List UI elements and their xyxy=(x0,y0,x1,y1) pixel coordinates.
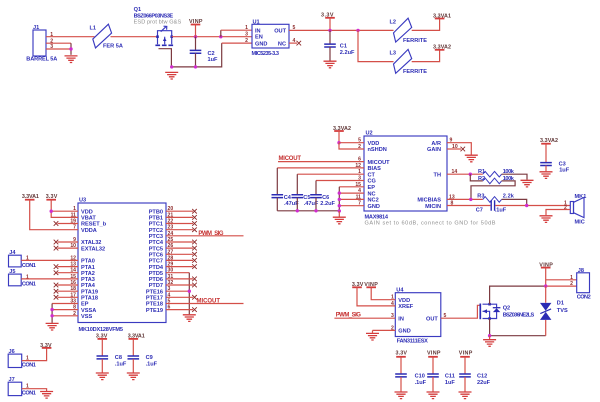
svg-text:J1: J1 xyxy=(33,25,39,31)
svg-text:PTC5: PTC5 xyxy=(149,246,163,252)
svg-text:PTE18: PTE18 xyxy=(146,302,163,308)
svg-text:2.2uF: 2.2uF xyxy=(340,50,355,56)
ground (Q2) xyxy=(489,336,491,340)
no-connect X (PTA2) xyxy=(54,270,59,275)
resistor R2 100k xyxy=(470,174,514,184)
no-connect X (PTC1) xyxy=(192,221,197,226)
capacitor C1 2.2uF xyxy=(324,30,355,60)
node C6 rail junction xyxy=(314,209,317,212)
svg-text:C8: C8 xyxy=(115,355,122,361)
svg-text:BARREL 5A: BARREL 5A xyxy=(26,56,57,62)
no-connect X (PTA19) xyxy=(54,289,59,294)
svg-text:U3: U3 xyxy=(79,198,86,204)
node C2 bottom junction xyxy=(194,65,197,68)
svg-text:EXTAL32: EXTAL32 xyxy=(81,246,105,252)
wire PTE18 MICOUT xyxy=(166,303,244,305)
svg-text:VDD: VDD xyxy=(398,298,410,304)
svg-text:nSHDN: nSHDN xyxy=(368,147,387,153)
power 3.3V (U4) xyxy=(352,282,364,288)
wire PTA1 stub xyxy=(58,266,79,268)
svg-text:1uF: 1uF xyxy=(445,380,456,386)
wire J5 to PTA3 xyxy=(21,278,78,280)
svg-text:XTAL32: XTAL32 xyxy=(81,240,101,246)
svg-text:C12: C12 xyxy=(477,374,487,380)
no-connect X (PTD6) xyxy=(192,277,197,282)
svg-text:PTC4: PTC4 xyxy=(149,240,164,246)
svg-text:GND: GND xyxy=(368,204,380,210)
svg-text:EP: EP xyxy=(368,185,376,191)
node mic junction xyxy=(525,204,528,207)
svg-text:.1uF: .1uF xyxy=(495,207,507,213)
no-connect X (GAIN) xyxy=(461,147,466,152)
wire RESET_b stub xyxy=(58,223,79,225)
node VINP/J8 junction xyxy=(544,284,547,287)
ground (Q1 rail) xyxy=(165,72,178,79)
svg-text:GAIN: GAIN xyxy=(427,147,441,153)
svg-text:BSZ036NE2LS: BSZ036NE2LS xyxy=(503,313,535,319)
svg-text:MICIN: MICIN xyxy=(425,204,441,210)
ground (R1) xyxy=(521,180,534,187)
svg-text:NC: NC xyxy=(278,41,286,47)
svg-text:PTC2: PTC2 xyxy=(149,228,163,234)
svg-text:C2: C2 xyxy=(208,51,215,57)
no-connect X (U1 NC) xyxy=(297,41,302,46)
svg-text:PTA0: PTA0 xyxy=(81,259,95,265)
connector J5 CON1 xyxy=(9,269,36,288)
resistor R1 100k xyxy=(478,169,515,177)
ground (C10) xyxy=(395,392,408,399)
node MICBIAS junction xyxy=(469,198,472,201)
svg-text:.1uF: .1uF xyxy=(115,362,127,368)
svg-text:J4: J4 xyxy=(9,250,16,256)
no-connect X (PTD4) xyxy=(192,264,197,269)
svg-text:ESD prot btw G&S: ESD prot btw G&S xyxy=(134,20,182,26)
svg-text:CON1: CON1 xyxy=(22,363,36,369)
wire R1 to ground xyxy=(502,174,527,180)
no-connect X (PTC6) xyxy=(192,252,197,257)
connector J8 CON2 xyxy=(570,268,591,301)
op-amp U1 MIC5235-3.3 xyxy=(245,19,295,57)
svg-text:1: 1 xyxy=(26,275,29,281)
wire EP/VSSA/VSS to ground xyxy=(52,304,78,316)
ground (MK1) xyxy=(540,216,553,223)
svg-text:C7: C7 xyxy=(476,207,483,213)
svg-text:GAIN set to 60dB, connect to G: GAIN set to 60dB, connect to GND for 50d… xyxy=(365,221,496,227)
resistor R3 2.2k xyxy=(477,194,514,203)
no-connect X (PTB0) xyxy=(192,209,197,214)
connector J7 CON1 xyxy=(8,377,36,397)
pin numbers U3 left xyxy=(70,206,76,317)
no-connect X (RESET_b) xyxy=(54,221,59,226)
svg-text:PTE16: PTE16 xyxy=(146,289,163,295)
svg-text:MK10DX128VFM5: MK10DX128VFM5 xyxy=(79,327,124,333)
wire MK1 pin2 to ground xyxy=(546,210,570,216)
svg-text:IN: IN xyxy=(398,316,404,322)
wire XTAL32 stub xyxy=(58,241,79,243)
svg-text:C5: C5 xyxy=(303,195,310,201)
svg-text:FAN3111ESX: FAN3111ESX xyxy=(397,339,428,345)
power 3.3V (at C1) xyxy=(321,13,335,31)
svg-text:CON1: CON1 xyxy=(22,282,36,288)
svg-text:U4: U4 xyxy=(396,288,404,294)
svg-text:C6: C6 xyxy=(322,195,329,201)
wire PTC7 stub xyxy=(166,259,193,261)
svg-text:BSZ066P03NS3E: BSZ066P03NS3E xyxy=(134,13,174,19)
ground (C3) xyxy=(540,172,553,179)
wire R2 return to MICBIAS xyxy=(471,181,515,200)
node VDD junction xyxy=(50,210,53,213)
svg-text:FERRITE: FERRITE xyxy=(403,69,427,75)
mcu U3 MK10DX128VFM5 xyxy=(78,198,166,333)
svg-text:MICOUT: MICOUT xyxy=(368,160,391,166)
svg-text:J8: J8 xyxy=(578,268,584,274)
wire U2 CG to C6 xyxy=(316,180,364,182)
ground (C11) xyxy=(427,392,440,399)
ground (C8) xyxy=(96,373,109,380)
wire J6 to 3.3V xyxy=(22,348,47,361)
svg-text:L1: L1 xyxy=(90,26,97,32)
svg-text:EP: EP xyxy=(81,302,89,308)
wire U2 EP/NC/NC2/GND bus xyxy=(339,187,364,206)
transistor Q1 BSZ066P03NS3E xyxy=(134,7,182,45)
svg-text:U2: U2 xyxy=(366,131,373,137)
no-connect X (PTA1) xyxy=(54,264,59,269)
connector J4 CON1 xyxy=(9,250,36,269)
wire U4 OUT to Q2 gate xyxy=(441,305,480,318)
wire PTE16 xyxy=(166,290,189,292)
connector J1 BARREL 5A xyxy=(26,25,57,62)
inductor L2 FERRITE xyxy=(390,18,428,44)
capacitor C5 .47uF xyxy=(292,195,319,211)
svg-text:TH: TH xyxy=(434,172,441,178)
svg-text:PTE19: PTE19 xyxy=(146,308,163,314)
svg-text:OUT: OUT xyxy=(426,316,438,322)
wire 3.3VA1 to VDDA xyxy=(30,200,78,230)
wire C7 to mic xyxy=(495,205,570,207)
svg-text:VDD: VDD xyxy=(81,209,93,215)
power 3.3VA2 (top) xyxy=(433,45,451,51)
no-connect X (PTC4) xyxy=(192,240,197,245)
node rail junction xyxy=(338,209,341,212)
svg-text:NC2: NC2 xyxy=(368,198,379,204)
capacitor C7 .1uF xyxy=(476,200,507,213)
svg-text:A/R: A/R xyxy=(431,141,441,147)
wire PTA18 stub xyxy=(58,296,79,298)
power VINP (C12) xyxy=(459,351,473,357)
svg-text:PTD7: PTD7 xyxy=(149,283,163,289)
capacitor C8 .1uF xyxy=(97,339,127,373)
power 3.3V (U3) xyxy=(46,194,58,200)
power 3.3VA2 (C3) xyxy=(540,138,558,144)
ground (J1) xyxy=(65,56,78,63)
node GND junction xyxy=(338,204,341,207)
svg-text:VBAT: VBAT xyxy=(81,216,96,222)
svg-text:CON1: CON1 xyxy=(22,263,36,269)
wire jog to U1 IN xyxy=(220,30,222,37)
svg-text:PTA3: PTA3 xyxy=(81,277,95,283)
svg-text:PTC7: PTC7 xyxy=(149,259,163,265)
node PTE16 junction xyxy=(188,290,191,293)
wire L1 to Q1 xyxy=(111,36,158,38)
svg-text:R1: R1 xyxy=(478,169,485,175)
svg-text:1: 1 xyxy=(245,25,248,31)
capacitor C12 22uF xyxy=(459,357,490,392)
svg-text:GND: GND xyxy=(255,41,267,47)
diode D1 TVS xyxy=(540,286,568,336)
svg-text:VINP: VINP xyxy=(427,351,441,357)
wire PTA2 stub xyxy=(58,272,79,274)
pin numbers U3 right xyxy=(168,206,174,310)
wire Q1 gate to ground rail xyxy=(159,49,172,67)
svg-text:MAX9814: MAX9814 xyxy=(365,214,389,220)
svg-text:PTD4: PTD4 xyxy=(149,265,164,271)
svg-text:C9: C9 xyxy=(146,355,153,361)
svg-text:MIC: MIC xyxy=(575,220,585,226)
ground (A/R) xyxy=(465,155,478,162)
wire PTB0 stub xyxy=(166,210,193,212)
wire ground rail under caps xyxy=(277,210,339,212)
no-connect X (PTA4) xyxy=(54,283,59,288)
svg-text:PTE17: PTE17 xyxy=(146,296,163,302)
svg-text:CG: CG xyxy=(368,179,376,185)
svg-text:2.2uF: 2.2uF xyxy=(320,201,335,207)
svg-text:.1uF: .1uF xyxy=(415,380,427,386)
svg-text:NC: NC xyxy=(368,191,376,197)
svg-text:MICBIAS: MICBIAS xyxy=(417,198,441,204)
capacitor C10 .1uF xyxy=(395,357,426,392)
svg-text:PTC1: PTC1 xyxy=(149,222,163,228)
op-amp U2 MAX9814 xyxy=(355,131,495,227)
inductor L3 FERRITE xyxy=(390,49,428,75)
power 3.3V (C10) xyxy=(396,351,408,357)
svg-text:PTC6: PTC6 xyxy=(149,253,163,259)
ground (U3 left) xyxy=(46,323,59,330)
wire U2 MICIN xyxy=(447,205,490,207)
svg-text:.47uF: .47uF xyxy=(304,201,319,207)
microphone MK1 MIC xyxy=(564,194,586,226)
power 3.3VA1 (top) xyxy=(433,13,451,19)
wire J4 to PTA0 xyxy=(21,259,78,261)
node IN jog junction xyxy=(219,35,222,38)
wire U2 MICBIAS xyxy=(447,198,483,200)
ground (U3 right) xyxy=(183,315,196,322)
wire U1 OUT to L2 xyxy=(289,29,394,31)
svg-text:2: 2 xyxy=(570,281,573,287)
wire 3.3V to XREF xyxy=(357,287,395,306)
wire J7 to ground xyxy=(22,389,47,391)
svg-text:PTB1: PTB1 xyxy=(149,216,163,222)
capacitor C3 1uF xyxy=(540,144,570,174)
wire R3 to mic node xyxy=(502,199,527,205)
svg-text:L2: L2 xyxy=(390,19,397,25)
svg-text:C4: C4 xyxy=(284,195,292,201)
wire PTD5 to ground xyxy=(166,272,189,274)
svg-text:J6: J6 xyxy=(9,349,15,355)
svg-text:VSS: VSS xyxy=(81,314,92,320)
svg-text:IN: IN xyxy=(255,28,261,34)
power VINP xyxy=(189,19,203,37)
svg-text:1: 1 xyxy=(570,275,573,281)
svg-text:PTC3: PTC3 xyxy=(149,234,163,240)
svg-text:PTA4: PTA4 xyxy=(81,283,96,289)
svg-text:PTA1: PTA1 xyxy=(81,265,95,271)
svg-text:CT: CT xyxy=(368,172,376,178)
wire PTB1 stub xyxy=(166,216,193,218)
svg-text:22uF: 22uF xyxy=(477,380,491,386)
wire U2 A/R to ground xyxy=(447,143,471,155)
wire PTA19 stub xyxy=(58,290,79,292)
wire PTC4 stub xyxy=(166,241,193,243)
svg-text:2: 2 xyxy=(245,38,248,44)
wire PTD7 stub xyxy=(166,284,193,286)
node rail-ground junction xyxy=(170,65,173,68)
svg-text:XREF: XREF xyxy=(398,304,414,310)
wire VINP to VDD xyxy=(371,287,395,299)
svg-text:EN: EN xyxy=(255,35,263,41)
svg-text:Q1: Q1 xyxy=(134,7,141,13)
svg-text:FER 5A: FER 5A xyxy=(103,44,123,50)
svg-text:CON2: CON2 xyxy=(577,295,591,301)
no-connect X (PTD7) xyxy=(192,283,197,288)
node C5 rail junction xyxy=(296,209,299,212)
node NC junction xyxy=(338,191,341,194)
svg-text:C11: C11 xyxy=(445,374,455,380)
node VINP junction at C2 xyxy=(194,35,197,38)
svg-text:C3: C3 xyxy=(559,161,566,167)
svg-text:C1: C1 xyxy=(340,44,347,50)
wire U2 TH xyxy=(447,173,483,175)
svg-text:Q2: Q2 xyxy=(503,306,510,312)
op-amp U4 FAN3111ESX xyxy=(391,288,447,345)
power 3.3VA1 (C9) xyxy=(128,333,145,339)
svg-text:R2: R2 xyxy=(478,176,485,182)
wire branch to L3 xyxy=(358,30,394,61)
no-connect X (PTE19) xyxy=(192,307,197,312)
svg-text:3.3V: 3.3V xyxy=(396,351,408,357)
svg-text:BIAS: BIAS xyxy=(368,166,382,172)
power 3.3V (J6) xyxy=(40,343,52,349)
capacitor C11 1uF xyxy=(427,357,455,392)
svg-text:VSSA: VSSA xyxy=(81,308,96,314)
wire PTD6 stub xyxy=(166,278,193,280)
node Q2 source junction xyxy=(488,334,491,337)
wire U4 GND to ground xyxy=(373,330,396,333)
svg-text:PTD5: PTD5 xyxy=(149,271,163,277)
node TH junction xyxy=(469,173,472,176)
wire J1 pin1 to L1 xyxy=(46,36,95,38)
node VSSA junction xyxy=(50,308,53,311)
connector J6 CON1 xyxy=(8,349,36,369)
transistor Q2 BSZ036NE2LS xyxy=(480,303,534,320)
wire PTC1 stub xyxy=(166,223,193,225)
svg-text:J7: J7 xyxy=(9,377,15,383)
power 3.3VA1 (U3) xyxy=(22,194,39,200)
power 3.3V (C8) xyxy=(96,333,108,339)
capacitor C9 .1uF xyxy=(128,339,158,373)
svg-text:VDDA: VDDA xyxy=(81,228,97,234)
no-connect X (PTE17) xyxy=(192,295,197,300)
node L3 branch junction xyxy=(356,29,359,32)
no-connect X (PTA18) xyxy=(54,295,59,300)
node U2 VDD junction xyxy=(337,141,340,144)
svg-text:MIC5235-3.3: MIC5235-3.3 xyxy=(252,51,280,57)
wire U2 CT to C5 xyxy=(297,173,364,175)
wire L2 to 3.3VA1 xyxy=(412,19,440,31)
wire PTE17 stub xyxy=(166,296,193,298)
wire PTA4 stub xyxy=(58,284,79,286)
wire 3.3V to VDD/VBAT xyxy=(51,200,78,218)
svg-text:RESET_b: RESET_b xyxy=(81,222,107,228)
svg-text:PTA19: PTA19 xyxy=(81,289,98,295)
svg-text:OUT: OUT xyxy=(274,28,286,34)
power 3.3VA2 (U2) xyxy=(333,126,351,143)
no-connect X (PTC2) xyxy=(192,227,197,232)
svg-text:PTA18: PTA18 xyxy=(81,296,98,302)
wire PTC2 stub xyxy=(166,229,193,231)
svg-text:1uF: 1uF xyxy=(559,168,570,174)
node NC2 junction xyxy=(338,198,341,201)
svg-text:J5: J5 xyxy=(9,269,15,275)
capacitor C2 1uF xyxy=(190,37,218,67)
svg-text:PTB0: PTB0 xyxy=(149,209,163,215)
svg-text:1uF: 1uF xyxy=(208,57,219,63)
wire MICOUT xyxy=(278,161,364,163)
svg-text:U1: U1 xyxy=(253,19,260,25)
wire bottom rail Q1/C2/U1 GND xyxy=(171,43,221,67)
svg-text:D1: D1 xyxy=(557,300,564,306)
ground (C12) xyxy=(459,392,472,399)
svg-text:TVS: TVS xyxy=(557,308,568,314)
no-connect X (PTC5) xyxy=(192,246,197,251)
wire VINP down to J8 xyxy=(546,268,577,287)
wire U2 GAIN stub xyxy=(447,148,461,150)
svg-text:PTD6: PTD6 xyxy=(149,277,163,283)
inductor L1 FER 5A xyxy=(90,24,123,49)
capacitor C6 2.2uF xyxy=(310,195,335,211)
power VINP (Q2) xyxy=(539,262,553,268)
wire EXTAL32 stub xyxy=(58,247,79,249)
capacitor C4 .47uF xyxy=(272,195,300,211)
svg-text:.1uF: .1uF xyxy=(146,362,158,368)
wire PTE19 stub xyxy=(166,309,193,311)
wire PTC6 stub xyxy=(166,253,193,255)
node VSS junction xyxy=(50,314,53,317)
wire Q2 source to bottom rail xyxy=(490,319,546,336)
svg-text:VDD: VDD xyxy=(368,141,380,147)
power VINP (C11) xyxy=(427,351,441,357)
ground (U4) xyxy=(366,333,379,340)
svg-text:3: 3 xyxy=(245,32,248,38)
wire U2 VDD xyxy=(339,142,364,144)
wire U2 nSHDN xyxy=(339,143,364,149)
ground (U2 rail) xyxy=(338,211,340,217)
no-connect X (XTAL32) xyxy=(54,240,59,245)
svg-text:PTA2: PTA2 xyxy=(81,271,95,277)
wire U2 BIAS to C4 xyxy=(277,167,364,169)
power VINP (U4) xyxy=(364,282,378,288)
no-connect X (PTC7) xyxy=(192,258,197,263)
svg-text:VINP: VINP xyxy=(459,351,473,357)
wire Q1 drain to U1 (EN row) xyxy=(172,36,252,38)
wire PTC5 stub xyxy=(166,247,193,249)
svg-text:C10: C10 xyxy=(415,374,425,380)
ground (J7) xyxy=(40,392,53,399)
no-connect X (PTB1) xyxy=(192,215,197,220)
wire PWM_SIG to IN xyxy=(334,317,395,319)
no-connect X (EXTAL32) xyxy=(54,246,59,251)
wire J1 pin2/pin3 to ground xyxy=(46,43,71,49)
wire PTD4 stub xyxy=(166,266,193,268)
